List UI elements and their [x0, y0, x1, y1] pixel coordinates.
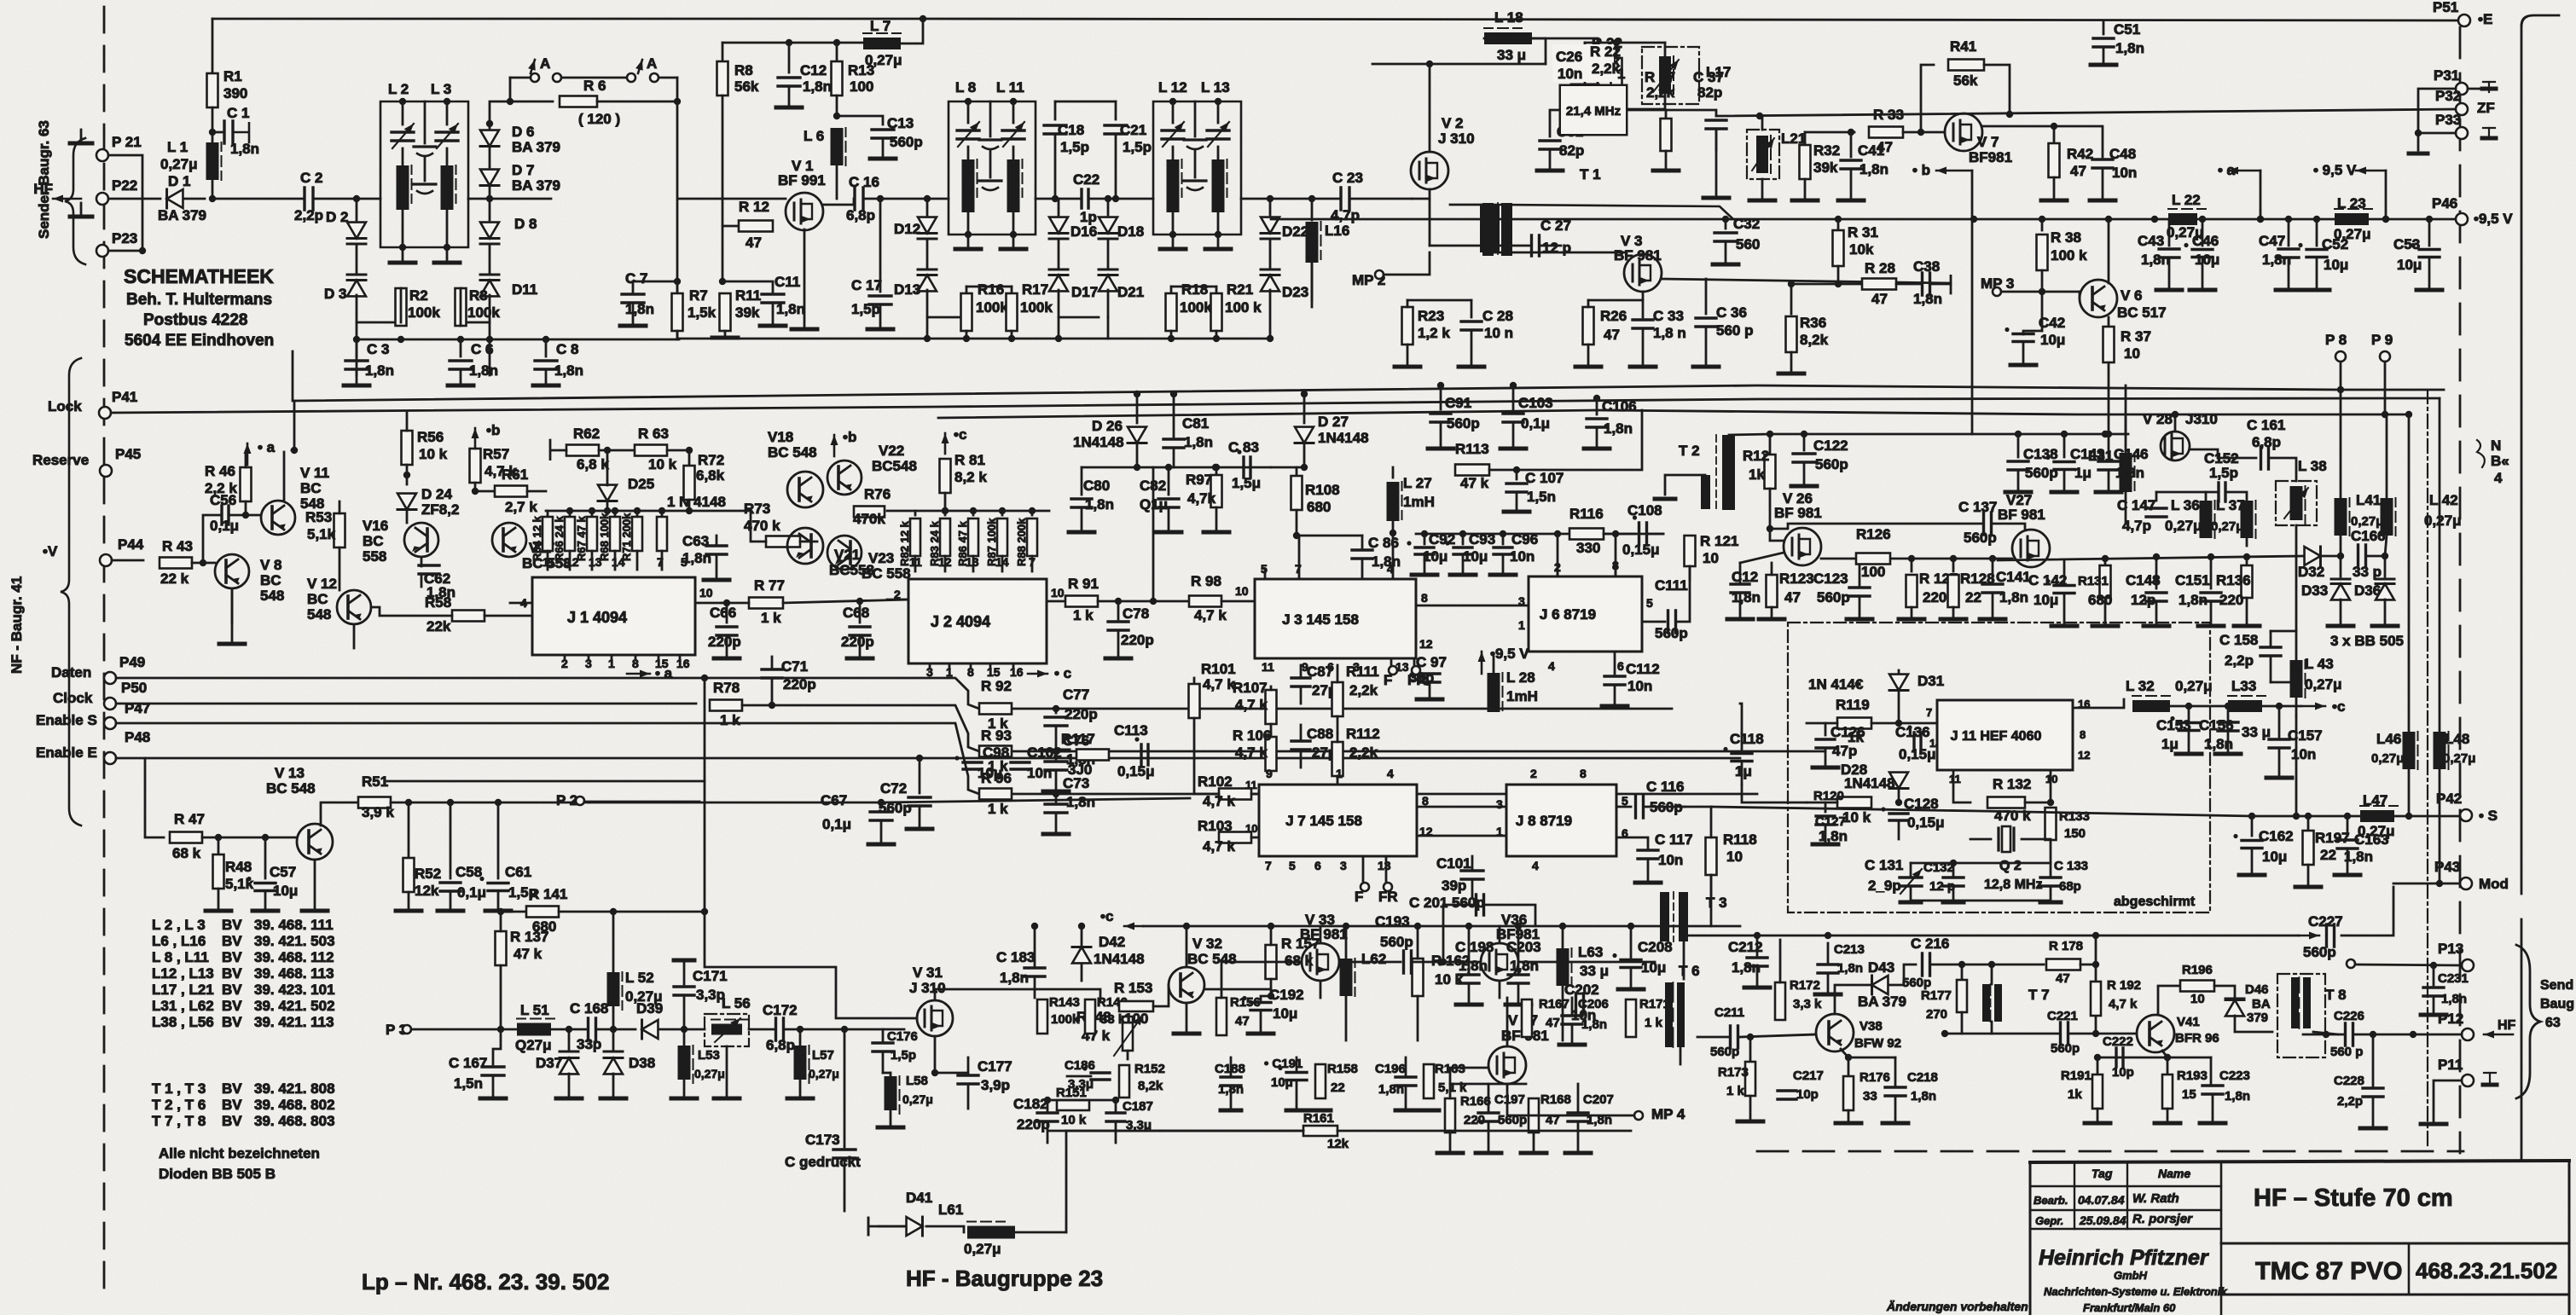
svg-text:V 13: V 13: [275, 765, 305, 781]
svg-text:BF981: BF981: [1969, 149, 2012, 165]
svg-text:Gepr.: Gepr.: [2035, 1214, 2063, 1227]
capacitor C128: [1889, 814, 1908, 820]
svg-text:R 6: R 6: [583, 78, 606, 94]
svg-text:22k: 22k: [426, 618, 451, 634]
capacitor C197: [1478, 1113, 1499, 1121]
connector F FR J3: [1390, 658, 1393, 665]
svg-text:680: 680: [2088, 592, 2112, 608]
resistor R193: [2167, 1057, 2169, 1075]
wire L36 L37 tops: [2205, 492, 2208, 501]
svg-text:5,1k: 5,1k: [307, 526, 336, 542]
svg-text:BC548: BC548: [872, 458, 917, 474]
resistor R1: [207, 73, 218, 107]
svg-text:3: 3: [1340, 859, 1347, 872]
svg-text:( 120 ): ( 120 ): [578, 111, 620, 127]
capacitor C106: [1596, 398, 1598, 414]
svg-text:NF - Baugr. 41: NF - Baugr. 41: [9, 576, 25, 674]
ground L8: [967, 235, 970, 249]
resistor R126: [1856, 553, 1890, 565]
svg-text:C218: C218: [1907, 1070, 1938, 1085]
svg-text:47: 47: [746, 235, 762, 251]
capacitor C188: [1221, 1077, 1241, 1086]
svg-text:P31: P31: [2434, 67, 2459, 84]
svg-text:0,27μ: 0,27μ: [160, 156, 198, 172]
label c arrow V22: [944, 433, 947, 454]
svg-text:15: 15: [2182, 1087, 2196, 1102]
inductor L41 pair: [2335, 498, 2347, 536]
ground L12: [1172, 235, 1175, 249]
svg-text:C146: C146: [2114, 446, 2149, 462]
svg-text:1,8n: 1,8n: [2115, 465, 2144, 481]
svg-text:39. 468. 112: 39. 468. 112: [254, 949, 334, 965]
resistor R173: [1749, 1037, 1752, 1062]
wire P11 left gnd: [2434, 1080, 2462, 1124]
wire MP4 link: [1507, 1084, 1634, 1115]
capacitor C162: [2251, 816, 2254, 836]
svg-text:W. Rath: W. Rath: [2132, 1191, 2179, 1206]
wire gnd row Q2: [1911, 900, 2051, 902]
svg-text:C 28: C 28: [1482, 308, 1513, 324]
wire R153 to V32 base: [1153, 985, 1169, 1006]
capacitor C58: [450, 802, 452, 878]
svg-text:C213: C213: [1834, 942, 1865, 957]
svg-text:2,7 k: 2,7 k: [505, 499, 537, 515]
svg-text:12: 12: [938, 555, 952, 569]
inductor L7: [863, 38, 901, 49]
svg-text:21,4 MHz: 21,4 MHz: [1566, 104, 1621, 119]
capacitor C43: [2168, 219, 2171, 246]
svg-text:BA 379: BA 379: [512, 177, 560, 194]
diode D42: [1072, 947, 1091, 964]
svg-text:R143: R143: [1049, 995, 1080, 1010]
svg-text:C56: C56: [210, 492, 236, 508]
connector FR J7: [1385, 856, 1388, 882]
svg-text:R 93: R 93: [981, 727, 1012, 744]
svg-text:1N 414€: 1N 414€: [1808, 676, 1864, 692]
resistor R158: [1315, 1064, 1326, 1098]
wire x826 top dot: [704, 678, 706, 781]
svg-text:D11: D11: [512, 281, 537, 298]
transistor V16: [404, 523, 438, 557]
ground row bottom mid: [1221, 1109, 1241, 1113]
wire bus b: [111, 398, 2440, 413]
wire V37 collector: [1506, 998, 1509, 1046]
svg-text:C42: C42: [2039, 315, 2065, 331]
svg-text:C63: C63: [682, 533, 709, 549]
resistor R137: [496, 931, 507, 965]
resistor R3: [455, 288, 467, 326]
resistor R62: [566, 445, 599, 456]
svg-text:C148: C148: [2126, 572, 2161, 588]
svg-text:R67 47 k: R67 47 k: [575, 515, 588, 561]
svg-text:R97: R97: [1186, 472, 1212, 488]
svg-text:V22: V22: [879, 443, 904, 459]
capacitor C16: [855, 188, 863, 210]
wire R126 to V27 gate: [1912, 558, 2012, 560]
svg-text:C163: C163: [2354, 831, 2389, 848]
svg-text:L 36: L 36: [2171, 497, 2200, 513]
diode D2 varactor: [356, 199, 358, 220]
wire T1 bottom link V3: [1494, 252, 1625, 254]
capacitor C86: [1297, 535, 1362, 537]
wire P12 left: [2303, 1034, 2344, 1036]
capacitor C8: [545, 339, 548, 356]
svg-text:1,2 k: 1,2 k: [1418, 325, 1450, 341]
wire V36 collector: [1499, 926, 1501, 943]
junction R141 x826: [701, 908, 708, 915]
svg-text:0,1μ: 0,1μ: [822, 816, 851, 832]
svg-text:BC: BC: [363, 533, 384, 549]
svg-text:C171: C171: [693, 968, 728, 984]
svg-text:Reserve: Reserve: [32, 452, 89, 468]
box L2 L3: [380, 101, 468, 247]
connector P31: [2456, 83, 2468, 95]
capacitor C137: [1984, 513, 1992, 535]
svg-text:C 168: C 168: [570, 1000, 608, 1017]
svg-text:C207: C207: [1583, 1092, 1614, 1107]
svg-text:R196: R196: [2182, 963, 2213, 977]
capacitor C72: [919, 758, 921, 793]
svg-text:J 3 145 158: J 3 145 158: [1282, 611, 1359, 628]
svg-text:R197: R197: [2315, 830, 2350, 846]
diode D8 varactor: [489, 199, 491, 220]
svg-text:Enable E: Enable E: [36, 744, 97, 761]
switch A right: [627, 73, 635, 82]
capacitor C48: [2054, 126, 2103, 157]
svg-text:• 9,5 V: • 9,5 V: [2313, 162, 2357, 178]
svg-text:D12: D12: [894, 221, 920, 237]
svg-text:C177: C177: [978, 1058, 1012, 1075]
svg-text:C 137: C 137: [1958, 499, 1997, 515]
svg-text:1 k: 1 k: [1645, 1016, 1663, 1030]
resistor R103: [1219, 832, 1251, 843]
svg-text:8: 8: [2080, 728, 2086, 741]
wire V8 emitter: [231, 588, 234, 623]
svg-text:T 3: T 3: [1706, 895, 1727, 911]
svg-text:HF: HF: [2498, 1018, 2516, 1033]
resistor R131: [2104, 559, 2107, 565]
capacitor C88: [1291, 741, 1310, 750]
svg-text:Send: Send: [2540, 978, 2573, 993]
svg-text:39. 423. 101: 39. 423. 101: [254, 982, 335, 998]
page border left dashed: [103, 7, 106, 1296]
svg-text:0,27μ: 0,27μ: [2351, 514, 2383, 529]
svg-text:4,7 k: 4,7 k: [1203, 676, 1235, 692]
wire V1 source down: [804, 229, 806, 329]
connector P42: [2460, 809, 2472, 821]
resistor R63: [635, 445, 667, 456]
capacitor C173: [844, 1029, 846, 1147]
svg-text:BC 548: BC 548: [1187, 951, 1237, 967]
capacitor C26: [1584, 43, 1587, 55]
svg-text:14: 14: [612, 555, 625, 569]
capacitor C117: [1638, 850, 1658, 859]
capacitor C3: [356, 339, 358, 356]
svg-text:39. 421. 502: 39. 421. 502: [254, 998, 335, 1014]
svg-text:C68: C68: [843, 605, 869, 621]
svg-text:BV: BV: [222, 917, 242, 933]
svg-text:C111: C111: [1655, 577, 1688, 594]
svg-text:D13: D13: [894, 281, 920, 298]
svg-text:0,27μ: 0,27μ: [694, 1067, 725, 1080]
ic J11 HEF4060: [1937, 700, 2073, 770]
connector P51: [2458, 14, 2470, 26]
label 9.5V arrow J6: [1481, 652, 1483, 674]
resistor R41: [1921, 65, 1934, 132]
wire T8 bottom to C226: [2313, 1032, 2338, 1034]
svg-text:10 n: 10 n: [1484, 325, 1513, 341]
resistor R23: [1402, 307, 1413, 345]
svg-text:4,7 k: 4,7 k: [1194, 607, 1227, 623]
svg-text:ZF: ZF: [2477, 100, 2495, 116]
svg-text:R 63: R 63: [638, 426, 669, 442]
svg-text:R17: R17: [1022, 281, 1048, 298]
svg-text:T 7 , T 8: T 7 , T 8: [152, 1113, 206, 1129]
svg-text:1,8n: 1,8n: [1184, 434, 1213, 450]
wire V36 to T3: [1518, 961, 1655, 964]
wire T1 secondary top right: [1494, 205, 1733, 219]
svg-text:1k: 1k: [2068, 1087, 2082, 1102]
resistor R36: [1790, 284, 1793, 314]
resistor R121: [1685, 536, 1696, 566]
svg-text:V 8: V 8: [260, 557, 282, 573]
svg-text:68p: 68p: [2059, 879, 2081, 894]
svg-text:1,8n: 1,8n: [469, 362, 498, 379]
svg-text:6,8p: 6,8p: [846, 207, 875, 223]
svg-text:J 6 8719: J 6 8719: [1540, 606, 1596, 623]
switch A left: [510, 77, 529, 79]
svg-text:BF981: BF981: [1496, 926, 1540, 942]
svg-text:C228: C228: [2334, 1074, 2364, 1088]
inductor L47: [2360, 810, 2394, 822]
capacitor C133: [2040, 878, 2061, 886]
svg-text:N: N: [2491, 437, 2501, 454]
capacitor C146: [2108, 434, 2110, 457]
wire R1 vertical: [212, 19, 214, 90]
wire C92 C93 C96 row: [1416, 533, 1663, 536]
svg-text:1: 1: [1336, 767, 1343, 780]
svg-text:47: 47: [2056, 971, 2070, 986]
resistor R133: [2045, 808, 2057, 840]
svg-text:1 k: 1 k: [988, 801, 1008, 817]
svg-text:12p: 12p: [2131, 592, 2155, 608]
ground L2: [402, 247, 404, 263]
capacitor C37: [1706, 120, 1726, 129]
wire J2 pin16 arrow c: [1028, 673, 1047, 675]
resistor bank R64-R71: [547, 511, 549, 515]
capacitor C201: [1477, 895, 1484, 915]
svg-text:L61: L61: [938, 1202, 963, 1218]
diode D28: [1889, 773, 1908, 789]
resistor R22: [1611, 58, 1622, 92]
resistor R56: [402, 431, 413, 465]
svg-text:C173: C173: [805, 1132, 840, 1148]
svg-text:22: 22: [2320, 847, 2336, 863]
svg-text:Sender Baugr. 63: Sender Baugr. 63: [36, 120, 52, 239]
svg-text:R 27: R 27: [1645, 69, 1675, 85]
svg-text:R48: R48: [225, 859, 252, 875]
svg-text:BFW 92: BFW 92: [1854, 1036, 1901, 1051]
varactor D13: [918, 269, 937, 271]
wire R161 left end: [1065, 1131, 1068, 1232]
svg-text:P45: P45: [115, 446, 141, 462]
wire C23 to V2: [1350, 198, 1412, 200]
resistor R123: [1767, 575, 1778, 607]
svg-text:C136: C136: [1895, 724, 1930, 740]
svg-text:1,8n: 1,8n: [1999, 589, 2028, 605]
svg-text:• S: • S: [2479, 808, 2498, 824]
svg-text:C193: C193: [1375, 913, 1410, 930]
svg-text:C 142: C 142: [2028, 572, 2067, 588]
inductor L8 winding: [967, 147, 970, 159]
svg-text:1,8n: 1,8n: [1819, 828, 1848, 844]
wire L51 to C168: [551, 1028, 587, 1031]
svg-text:0,15μ: 0,15μ: [1622, 542, 1660, 558]
label a arrow V11: [247, 443, 249, 465]
svg-text:L 23: L 23: [2337, 195, 2366, 211]
capacitor C148: [2155, 557, 2158, 588]
svg-text:470 k: 470 k: [1994, 808, 2031, 824]
resistor R132: [1953, 770, 1970, 802]
svg-text:100 k: 100 k: [1225, 299, 1262, 316]
svg-text:V 31: V 31: [913, 965, 943, 981]
resistor R167: [1522, 999, 1532, 1037]
resistor R106: [1266, 737, 1277, 771]
svg-text:R. porsjer: R. porsjer: [2132, 1212, 2193, 1226]
wire gnd L37 mid: [2246, 538, 2248, 546]
svg-text:10p: 10p: [1796, 1087, 1819, 1102]
wire J6 pin2 up: [1557, 570, 1559, 576]
svg-text:C222: C222: [2103, 1034, 2133, 1049]
svg-text:C197: C197: [1494, 1092, 1525, 1107]
svg-text:47: 47: [1235, 1014, 1250, 1028]
svg-text:V16: V16: [363, 518, 388, 534]
svg-text:J 8 8719: J 8 8719: [1516, 813, 1572, 829]
resistor R111: [1332, 682, 1343, 716]
svg-text:8,2 k: 8,2 k: [954, 469, 987, 485]
svg-text:R76: R76: [864, 486, 891, 502]
svg-text:•c: •c: [1100, 908, 1113, 924]
svg-text:10n: 10n: [1510, 548, 1535, 565]
capacitor C82: [1152, 467, 1155, 601]
ground P11 right: [2484, 1072, 2496, 1074]
svg-text:10μ: 10μ: [2040, 332, 2065, 348]
wire V2 drain up: [1429, 64, 1431, 152]
resistor R136: [2246, 557, 2248, 565]
svg-text:L 18: L 18: [1494, 9, 1523, 26]
svg-text:C gedruckt: C gedruckt: [785, 1154, 861, 1170]
wire P2 row right: [881, 798, 1190, 802]
capacitor C193: [1339, 961, 1401, 964]
shield box L21: [1747, 130, 1779, 179]
svg-text:4,7 k: 4,7 k: [1235, 697, 1268, 713]
svg-text:10: 10: [1245, 822, 1257, 835]
svg-text:R193: R193: [2177, 1069, 2208, 1083]
diode D3 varactor: [347, 274, 366, 276]
arrow HF out: [2484, 1034, 2513, 1036]
capacitor C213: [1818, 965, 1838, 973]
svg-text:BF 981: BF 981: [1774, 505, 1822, 521]
wire V2 source column: [1429, 199, 1431, 246]
inductor L22: [2168, 213, 2197, 225]
transistor V26 BF981: [1784, 528, 1821, 565]
svg-text:4,7 k: 4,7 k: [1203, 838, 1235, 854]
svg-text:5: 5: [681, 555, 688, 569]
capacitor C176: [873, 1043, 893, 1051]
svg-text:P51: P51: [2433, 0, 2458, 15]
svg-text:47 k: 47 k: [1460, 475, 1489, 491]
svg-text:R116: R116: [1569, 506, 1604, 522]
svg-text:P 8: P 8: [2325, 332, 2347, 348]
svg-text:2_9p: 2_9p: [1868, 878, 1901, 894]
svg-text:3,9p: 3,9p: [981, 1077, 1010, 1093]
svg-text:D33: D33: [2301, 582, 2328, 599]
svg-text:BA 379: BA 379: [512, 139, 560, 155]
resistor R148 trimmer: [1123, 1017, 1133, 1051]
svg-text:C 158: C 158: [2219, 632, 2258, 648]
svg-text:•E: •E: [2478, 11, 2492, 27]
svg-text:12,8 MHz: 12,8 MHz: [1984, 878, 2042, 892]
svg-text:C162: C162: [2259, 828, 2294, 844]
resistor R2: [396, 288, 407, 326]
wire V12 emitter down: [353, 624, 356, 648]
svg-text:L 32: L 32: [2126, 678, 2155, 694]
svg-text:P50: P50: [121, 680, 147, 696]
svg-text:10: 10: [2190, 992, 2205, 1006]
svg-text:0,27μ: 0,27μ: [2424, 513, 2462, 529]
capacitor C183: [1024, 968, 1045, 976]
svg-text:560p: 560p: [1815, 456, 1848, 472]
resistor R37: [2108, 317, 2110, 326]
svg-text:1N4148: 1N4148: [1318, 430, 1369, 446]
svg-text:B«: B«: [2491, 453, 2509, 469]
border dashed bottom: [1757, 1150, 2463, 1153]
inductor L57: [799, 1029, 802, 1046]
svg-text:C26: C26: [1556, 49, 1582, 65]
connector P46: [2456, 213, 2468, 225]
wire V26 drain right: [1821, 558, 1912, 560]
svg-text:47: 47: [1871, 291, 1888, 307]
svg-text:R36: R36: [1800, 315, 1826, 331]
svg-text:C176: C176: [887, 1029, 918, 1044]
inductor L2 winding: [402, 148, 404, 165]
svg-text:L53: L53: [698, 1048, 720, 1063]
wire y916 row: [387, 780, 705, 783]
svg-text:33 p: 33 p: [2353, 564, 2382, 580]
svg-text:10 k: 10 k: [1842, 809, 1871, 825]
connector P12: [2462, 1028, 2474, 1040]
svg-text:T 6: T 6: [1679, 963, 1700, 979]
svg-text:C48: C48: [2109, 146, 2136, 162]
svg-text:L58: L58: [906, 1074, 928, 1088]
wire J1 pin16 arrow a: [627, 673, 650, 675]
svg-text:HF - Baugruppe 23: HF - Baugruppe 23: [906, 1266, 1103, 1291]
svg-text:HF – Stufe 70 cm: HF – Stufe 70 cm: [2254, 1185, 2453, 1212]
diode D39: [642, 1020, 659, 1039]
svg-text:R52: R52: [415, 866, 441, 882]
capacitor C21: [1115, 101, 1117, 119]
wire D8 to D11: [489, 244, 491, 275]
capacitor C153: [2188, 706, 2190, 720]
wire C118 to R120 row: [1742, 785, 1807, 802]
svg-text:C 17: C 17: [851, 277, 882, 293]
svg-text:C96: C96: [1511, 531, 1538, 547]
svg-text:C 8: C 8: [556, 341, 578, 357]
border dashed vertical right: [2459, 27, 2462, 1153]
trimmer cap C131: [1900, 878, 1922, 886]
svg-text:D32: D32: [2298, 564, 2324, 580]
svg-text:Frankfurt/Main 60: Frankfurt/Main 60: [2083, 1301, 2176, 1314]
